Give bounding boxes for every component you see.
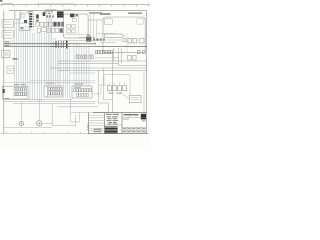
wire M2 to box — [42, 122, 52, 124]
relay K1 — [36, 14, 39, 18]
bus end labels — [5, 41, 10, 46]
wire drop W6 — [70, 98, 72, 113]
contact dashes right of K7 — [93, 38, 105, 40]
connector J10 (left margin upper) — [2, 20, 13, 28]
terminal squares right edge — [137, 50, 145, 54]
tie wire across cluster — [14, 22, 29, 24]
housing dark mark — [24, 20, 27, 23]
M1 stem — [20, 126, 22, 127]
paper background — [0, 0, 150, 150]
separator above stamp — [104, 124, 122, 126]
drawing number solid cell — [141, 114, 146, 120]
title block inner lines right — [122, 118, 147, 134]
right bundle line B3 — [50, 67, 147, 69]
riser R3 — [112, 53, 114, 113]
title header text — [124, 114, 139, 115]
relay K2 — [36, 20, 39, 22]
long link line B6 — [119, 65, 147, 67]
A1 internal sub box — [72, 18, 76, 21]
title block center text rows — [106, 114, 119, 125]
connector X4 — [72, 86, 92, 98]
relay K9 dark — [43, 12, 46, 16]
small cell texts — [94, 128, 146, 132]
lower horizontal wire W1 — [4, 99, 72, 101]
wire A1 to A2 — [88, 19, 103, 21]
X1 label — [14, 84, 19, 85]
relay K7 (dark, mid) — [86, 37, 91, 42]
label above A2 mid — [100, 13, 111, 15]
label above A2 left — [89, 12, 102, 14]
right bundle line B2 — [58, 62, 119, 64]
label above A2 right — [128, 12, 142, 14]
bundle risers — [114, 48, 122, 66]
wire node at K7 — [79, 37, 96, 39]
connector J11 (left margin lower) — [2, 30, 13, 38]
link wire W7 — [71, 112, 109, 114]
equipment box E1 — [52, 103, 76, 125]
module A2 (large right block) — [103, 17, 145, 53]
contact K4 dark — [53, 22, 56, 27]
relay housing box around TB1 — [20, 13, 29, 31]
ground return wire — [4, 126, 52, 128]
bundle stub — [95, 57, 119, 59]
connector X1 (lower left) — [2, 86, 28, 99]
wire to motor M2 — [38, 100, 40, 121]
revision table rows — [89, 115, 105, 131]
X1 contact grid — [14, 88, 27, 96]
A1 internal contact row — [67, 25, 75, 33]
wire into K8 — [99, 84, 108, 86]
terminal pair row lower — [76, 55, 93, 58]
A2 sub-connector right — [137, 19, 144, 25]
wire above dashes — [97, 33, 116, 35]
fuse box F1 — [2, 50, 10, 57]
contact K5b — [61, 22, 64, 27]
bus line L2 — [4, 45, 147, 47]
K8 leads — [110, 83, 125, 86]
drawing frame border — [4, 11, 147, 134]
sub text under dwg cell — [142, 120, 145, 121]
A2 terminal squares — [128, 39, 144, 44]
bus line L1 — [4, 43, 96, 45]
K8 label — [109, 93, 114, 94]
lower horizontal wire W3 — [13, 102, 95, 104]
title block outline — [89, 113, 147, 134]
bus stub ticks left — [6, 41, 13, 47]
wire drop W5 — [71, 113, 80, 122]
A1 internal mark 2 — [75, 14, 78, 17]
lower horizontal wire W4 — [57, 106, 98, 108]
A2 wedge connector P1 — [105, 34, 125, 37]
A2 sub-connector — [105, 19, 113, 25]
short link line B5 — [70, 72, 95, 74]
note box N1 — [129, 95, 141, 102]
A1 mid wire — [78, 15, 80, 35]
diagonal lead to N1 — [120, 92, 129, 99]
relay block K3 (dark hatched) — [57, 11, 64, 17]
aux box left margin — [7, 66, 13, 73]
riser R2 — [103, 68, 112, 100]
label TCS NO — [44, 11, 53, 14]
X4 exit wire — [92, 85, 101, 94]
scattered marks upper cluster — [46, 15, 54, 17]
TB1 second pin column — [33, 14, 34, 28]
left margin note — [5, 98, 9, 99]
A1 bottom wire — [64, 33, 88, 35]
contact K5 dark — [57, 22, 60, 27]
riser R1 to title block — [98, 70, 108, 113]
top fold ruler strip — [0, 3, 150, 6]
vertical wires mid-right — [74, 14, 97, 86]
X4 label inside — [74, 86, 81, 89]
A2 wedge tip box — [123, 38, 126, 41]
motor M1 — [19, 121, 24, 126]
X2 label above — [46, 83, 54, 84]
X4 contact row 2 — [76, 93, 88, 96]
A2 inner divider — [126, 33, 128, 52]
bottom ruler / frame line — [0, 132, 88, 134]
label above TB1 — [28, 11, 33, 12]
contact K6 — [60, 28, 63, 33]
wire to motor M1 — [20, 102, 22, 122]
terminal strip TB1 (dark stack) — [29, 13, 32, 27]
faint cell text — [123, 118, 129, 121]
terminal pair row TP (right of band) — [95, 50, 112, 53]
motor M2 — [37, 121, 42, 126]
relay group right of bundle — [128, 55, 137, 60]
label right of K3 — [64, 10, 72, 11]
vertical wire harness left — [14, 12, 69, 102]
left link lines lower — [30, 80, 95, 82]
X4 label above — [75, 84, 83, 85]
bus junction cluster — [56, 41, 68, 49]
A2 wedge2 lead — [106, 39, 122, 41]
housing lower mark — [21, 27, 24, 29]
right bundle line B1 — [58, 60, 147, 62]
connector shell J2 top-left — [15, 11, 21, 20]
wire loop to K8/N1 — [104, 75, 130, 96]
X2 contact grid — [49, 87, 62, 95]
label AC source — [13, 58, 18, 59]
X4 contact row — [74, 89, 92, 92]
header cell divider — [129, 113, 131, 118]
connector X2 — [44, 86, 62, 97]
contact row CR2 — [37, 27, 59, 32]
label above K3 — [46, 9, 57, 10]
right bundle line B4 — [58, 69, 147, 71]
connector band CB1 — [57, 40, 95, 46]
bus emphasis segments — [50, 43, 70, 45]
right drop wire — [143, 70, 145, 112]
A2 lower wire — [100, 42, 116, 44]
contact row CR1 — [36, 22, 53, 26]
X1 dark mark — [3, 89, 5, 93]
lower horizontal wire W2 — [4, 101, 95, 103]
revision row end tabs — [87, 125, 89, 130]
scan corner mark — [0, 0, 2, 2]
approval stamp (dark text block) — [105, 126, 118, 133]
module A1 — [64, 14, 89, 38]
stub wires to TB1 — [21, 23, 35, 30]
relay contacts K8 (right mid) — [108, 86, 127, 91]
A1 internal mark 1 — [70, 14, 74, 18]
